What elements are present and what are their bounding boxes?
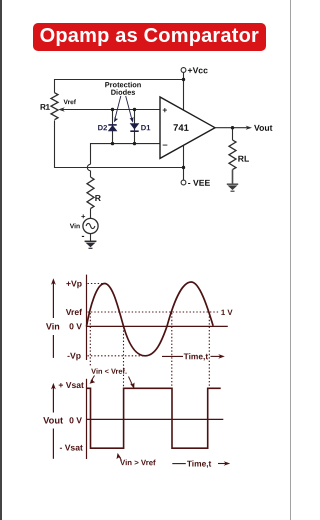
terminal -VEE [181,180,186,185]
dotted -Vp level [88,355,145,357]
junction node: D2 bottom [111,142,114,145]
svg-text:Vin < Vref.: Vin < Vref. [91,367,127,376]
svg-text:1 V: 1 V [221,308,234,317]
junction node: rail/-VEE [182,166,185,169]
op-amp U1 741 triangle [160,97,215,158]
dotted vertical crossing 1 [89,313,91,366]
Vin time axis arrow [211,354,225,359]
svg-text:Vout: Vout [254,123,273,133]
diode D2 lead [112,110,114,144]
Vin source circle [83,218,98,233]
svg-text:+: + [81,212,86,221]
svg-text:Time,t: Time,t [184,351,209,361]
wire: RL bottom to ground [232,170,234,185]
wire: RL top [232,128,234,140]
svg-text:R1: R1 [40,103,51,112]
svg-text:D1: D1 [141,123,151,132]
wire hop over bottom rail [87,164,90,170]
ground triangle (RL) [228,185,238,190]
wire: R1 bottom to bottom rail [55,120,184,167]
wire: Vref wiper to + input [62,109,161,111]
resistor R1 [51,93,58,120]
terminal +Vcc [181,68,186,73]
svg-text:Vin: Vin [70,223,80,230]
output wire [215,127,249,129]
circuit schematic [0,60,292,260]
diode D2 symbol [108,125,116,131]
svg-text:RL: RL [238,154,249,164]
Vin 0V axis [87,325,228,327]
svg-text:741: 741 [173,122,189,133]
wire: R bottom to Vin source [90,209,92,219]
Vout time axis tail [172,463,186,465]
ground triangle (Vin) [86,243,96,248]
wire: top rail R1 top to +Vcc line [55,80,184,93]
svg-text:–: – [162,140,167,151]
junction node: D1 bottom [133,142,136,145]
svg-text:Vref: Vref [66,307,82,317]
Vout 0V axis [87,418,224,420]
dotted +Vp level [88,283,105,285]
resistor R [87,177,94,209]
annotation arrow: Vin&gt;Vref [117,453,122,461]
Vout plot y-axis [86,379,88,459]
+Vcc lead [183,72,185,109]
Vin time axis tail [162,355,183,357]
diode D1 lead [134,110,136,144]
Vout time axis arrow [218,461,230,466]
svg-text:+Vcc: +Vcc [188,65,209,75]
title banner [33,23,266,51]
square wave Vout [87,388,221,448]
svg-text:0 V: 0 V [69,321,82,331]
svg-text:+Vp: +Vp [66,279,82,289]
svg-text:-Vp: -Vp [67,351,81,361]
ground (Vin) [85,240,97,242]
waveform plots [0,260,292,480]
output arrowhead [246,126,252,130]
right edge line [290,0,291,520]
dotted vertical crossing 2 [123,327,125,389]
dotted Vref level [88,311,219,313]
wire: source bottom to ground [90,234,92,241]
wire: hop to R top [90,171,92,177]
left edge line [0,0,2,520]
svg-text:- Vsat: - Vsat [59,443,83,453]
junction node: rail/+Vcc [182,78,185,81]
dotted vertical crossing 4 [208,313,210,388]
svg-text:Vout: Vout [43,416,63,426]
svg-text:Vin > Vref: Vin > Vref [120,458,156,467]
svg-text:Diodes: Diodes [111,88,136,97]
Vin amplitude arrow [51,278,56,358]
svg-text:Vin: Vin [46,321,60,331]
wiper arrowhead [58,107,64,111]
junction node: output [231,126,234,129]
text labels [40,65,273,241]
sine wave Vin [87,282,214,356]
svg-text:+: + [162,105,167,115]
svg-text:Time,t: Time,t [187,459,212,469]
annotation arrow: Vin&lt;Vref right [129,377,135,389]
resistor RL [229,140,236,170]
Vout amplitude arrow [51,383,56,459]
diode D1 symbol [130,124,138,132]
svg-text:Vref: Vref [64,99,77,106]
Vin plot y-axis [86,275,88,360]
-VEE lead [183,146,185,180]
svg-text:-: - [81,231,84,241]
wire: - input line [91,144,161,165]
svg-text:+ Vsat: + Vsat [58,380,84,390]
svg-text:0 V: 0 V [69,415,82,425]
ground (RL) [227,183,238,185]
svg-text:D2: D2 [98,123,108,132]
svg-text:R: R [95,193,102,203]
sine mark inside source [86,223,95,228]
junction node: D1 top [133,108,136,111]
annotation arrow: Vin&lt;Vref left [90,376,96,384]
dotted vertical crossing 3 [171,313,173,389]
svg-text:- VEE: - VEE [188,178,211,188]
protection-diodes pointer arrows [114,96,134,123]
junction node: D2 top [111,108,114,111]
